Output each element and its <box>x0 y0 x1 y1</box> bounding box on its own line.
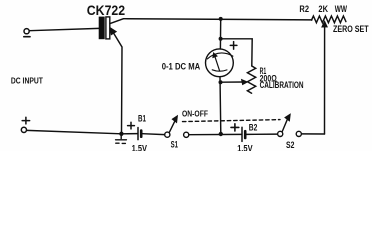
resistor R2 zigzag <box>312 16 346 23</box>
junction: meter feed / R1 branch <box>219 37 223 41</box>
wire: bottom-left rail <box>27 130 122 133</box>
meter M1 0-1 DC MA <box>206 49 234 77</box>
svg-text:DC INPUT: DC INPUT <box>11 76 44 86</box>
gang link: dashed line S1-S2 <box>183 120 281 122</box>
svg-text:1.5V: 1.5V <box>237 144 253 151</box>
wiper arrow: R2 zero set <box>322 21 327 134</box>
transistor Q1 CK722 body <box>99 17 110 40</box>
svg-text:ON-OFF: ON-OFF <box>182 108 208 118</box>
terminal: DC INPUT negative <box>24 29 29 34</box>
label: plus (B1) <box>128 122 135 129</box>
wire: negative terminal to transistor emitter-left lead <box>29 28 99 30</box>
junction: top rail / meter feed <box>219 17 223 21</box>
wire: meter bottom vertical <box>219 77 222 134</box>
switch S2 <box>278 114 302 136</box>
wire: R1 wiper with arrow <box>221 80 248 85</box>
svg-text:S2: S2 <box>286 140 294 150</box>
label: plus (DC input) <box>22 117 29 124</box>
svg-text:2K: 2K <box>318 3 328 14</box>
ground: chassis <box>116 134 127 144</box>
terminal: DC INPUT positive <box>21 127 26 132</box>
svg-text:S1: S1 <box>171 139 178 149</box>
label: meter plus <box>230 42 237 50</box>
wire: R1 top branch <box>221 39 253 66</box>
battery B1 <box>138 128 141 140</box>
wire: S2 to right riser <box>302 133 325 135</box>
svg-text:CALIBRATION: CALIBRATION <box>260 80 304 90</box>
junction: bottom-left <box>119 132 123 136</box>
svg-text:0-1 DC MA: 0-1 DC MA <box>162 62 201 73</box>
resistor R1 zigzag <box>247 66 255 93</box>
wire: S1 to B2 <box>189 133 242 135</box>
label: minus sign <box>24 36 30 38</box>
svg-text:B2: B2 <box>249 123 258 133</box>
label: plus (B2) <box>231 124 239 131</box>
wire: B1 to S1 <box>143 133 165 136</box>
svg-text:1.5V: 1.5V <box>132 143 148 151</box>
transistor Q1 emitter lead with arrow <box>110 28 122 134</box>
wire: B2 to S2 <box>247 133 278 135</box>
svg-text:R2: R2 <box>299 3 309 14</box>
svg-text:ZERO SET: ZERO SET <box>333 24 369 34</box>
switch S1 <box>165 116 189 138</box>
svg-text:CK722: CK722 <box>87 3 126 18</box>
wire: junction to B1 <box>121 133 137 135</box>
transistor Q1 collector lead <box>110 19 124 24</box>
junction: meter bottom / wiper branch <box>219 80 223 84</box>
wire: meter feed vertical <box>219 19 221 49</box>
svg-text:B1: B1 <box>138 114 146 124</box>
wire: top rail <box>124 19 313 20</box>
battery B2 <box>242 127 245 141</box>
junction: meter return on bottom rail <box>219 132 223 136</box>
svg-text:WW: WW <box>335 3 347 14</box>
